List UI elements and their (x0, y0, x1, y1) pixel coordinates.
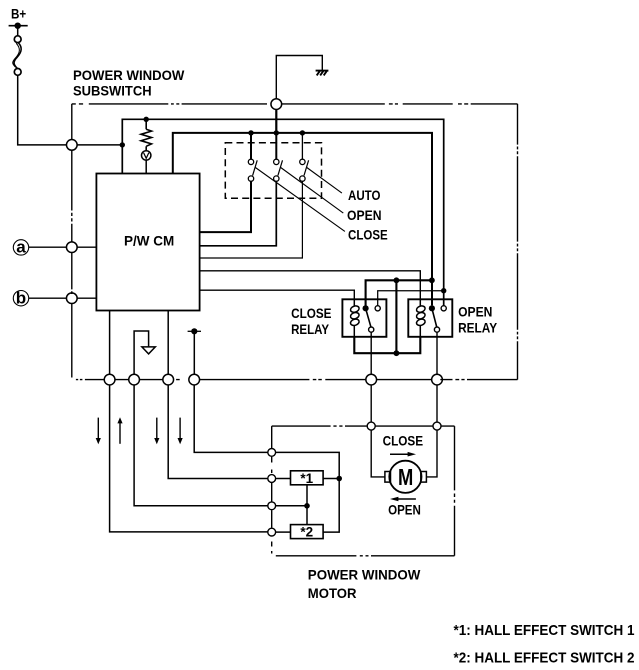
node B+ rail junction (120, 142, 125, 147)
svg-text:b: b (16, 289, 26, 308)
node hall supply (336, 476, 342, 482)
switch OPEN contacts (274, 159, 283, 181)
ground arrow (142, 347, 155, 354)
svg-text:OPEN: OPEN (347, 207, 382, 223)
terminal a (13, 238, 28, 257)
svg-text:OPEN: OPEN (388, 502, 421, 518)
close relay box (342, 299, 386, 337)
wire P/W CM to close relay coil (200, 290, 355, 299)
wire relay outputs to motor top pins (371, 385, 437, 422)
flow arrow down 1 (96, 418, 101, 445)
flow arrow down 2 (154, 418, 159, 445)
node coil return rail (394, 350, 400, 356)
svg-text:*1: HALL EFFECT SWITCH 1: *1: HALL EFFECT SWITCH 1 (454, 622, 635, 639)
svg-text:*1: *1 (300, 471, 313, 486)
svg-text:RELAY: RELAY (458, 319, 498, 335)
hall effect switch 2 box (291, 525, 324, 539)
label pointer line switch1 to CLOSE (255, 168, 345, 232)
wire open relay output (436, 332, 438, 374)
wire hall2 left (276, 531, 291, 533)
svg-text:a: a (16, 238, 26, 257)
node subswitch bottom pin4 (189, 374, 200, 385)
node B+ loop to fixed contacts (441, 288, 446, 293)
svg-text:CLOSE: CLOSE (383, 433, 424, 449)
wire ground circle up to chassis ground (276, 56, 322, 99)
wire close relay output (370, 332, 372, 374)
open direction arrow (390, 497, 416, 502)
node switch bus close (300, 130, 305, 135)
label pointer line switch2 to OPEN (281, 168, 344, 214)
node common bus right (429, 277, 435, 283)
close relay coil (350, 299, 360, 337)
wire hall1 to hall2 (306, 485, 308, 525)
switch CLOSE contacts (300, 159, 309, 181)
open relay box (408, 299, 452, 337)
wire close relay fixed contact to B+ loop (378, 291, 444, 306)
svg-text:RELAY: RELAY (291, 321, 330, 337)
power window subswitch box right border (517, 104, 519, 380)
svg-text:SUBSWITCH: SUBSWITCH (73, 82, 152, 98)
node switch bus auto (248, 130, 253, 135)
node subswitch bottom open output (432, 374, 443, 385)
node subswitch border ground junction (271, 99, 282, 110)
svg-text:OPEN: OPEN (458, 303, 492, 319)
wire P/W CM to switch2 (200, 181, 277, 246)
switch dashed box (225, 143, 321, 199)
wire B+ rail loop to open relay fixed contact (122, 119, 443, 305)
node motor left pin3 (268, 502, 276, 510)
wire subswitch pin2 to motor pin3 (134, 385, 268, 506)
wire coil return rail (354, 337, 420, 353)
node subswitch border pin a (66, 242, 77, 253)
svg-text:*2: HALL EFFECT SWITCH 2: *2: HALL EFFECT SWITCH 2 (454, 650, 635, 667)
wire switch 1 stem (250, 133, 252, 159)
flow arrow up (117, 417, 122, 444)
wire hall signal mid (276, 505, 307, 507)
hall effect switch 1 box (291, 471, 324, 485)
svg-text:B+: B+ (11, 6, 26, 21)
power window motor box top border (272, 425, 455, 427)
wire terminal b to P/W CM (29, 297, 97, 299)
wire common bus drop to coil return rail (395, 280, 397, 353)
node motor left pin2 (268, 475, 276, 483)
wire P/W CM to switch1 (200, 181, 251, 232)
wire hall1 right (323, 478, 339, 480)
svg-text:CLOSE: CLOSE (291, 305, 331, 321)
wire ground circle to switch bus (275, 110, 277, 133)
node motor left pin4 (268, 528, 276, 536)
switch AUTO contacts (248, 159, 257, 181)
power window motor box left border (271, 426, 273, 553)
open relay contact (429, 305, 447, 332)
svg-text:AUTO: AUTO (348, 187, 381, 203)
wire ground arrow branch (134, 331, 149, 374)
fuse (circuit breaker) (13, 36, 21, 76)
power window subswitch box top border (72, 103, 518, 105)
node subswitch bottom pin3 (163, 374, 174, 385)
close relay contact (363, 305, 381, 332)
terminal b (13, 289, 28, 308)
node resistor top (144, 117, 149, 122)
wire ground bus loop to open relay contact common (173, 133, 432, 306)
power window subswitch box bottom border (76, 379, 518, 381)
resistor (141, 121, 152, 151)
label pointer line switch3 to AUTO (307, 168, 342, 194)
wire P/W CM to switch3 (200, 181, 303, 258)
wire relay contact common bus (366, 280, 432, 308)
wire motor pin open side (426, 430, 437, 477)
chassis ground (316, 71, 329, 76)
svg-text:POWER WINDOW: POWER WINDOW (308, 567, 421, 583)
svg-text:*2: *2 (300, 525, 313, 540)
node subswitch bottom close output (366, 374, 377, 385)
node motor left pin1 (268, 449, 276, 457)
wire P/W CM bottom pin1 (109, 311, 111, 375)
svg-text:CLOSE: CLOSE (348, 226, 388, 242)
node common bus mid (394, 277, 400, 283)
wire P/W CM to open relay coil (200, 271, 421, 300)
node motor top close pin (367, 422, 375, 430)
flow arrow down 3 (178, 418, 183, 445)
terminal tick node (188, 328, 201, 374)
P/W CM box (96, 174, 199, 311)
wire junction to B+ rail (77, 144, 122, 146)
wire terminal a to P/W CM (29, 246, 97, 248)
B+ terminal (9, 23, 28, 36)
svg-text:MOTOR: MOTOR (308, 585, 357, 601)
wire subswitch pin1 to motor pin4 (110, 385, 268, 532)
wire P/W CM bottom pin3 (167, 311, 169, 375)
node switch bus open (274, 130, 279, 135)
power window subswitch box left border (71, 104, 73, 378)
svg-text:P/W CM: P/W CM (124, 232, 174, 248)
motor M1 (385, 461, 427, 493)
node motor top open pin (433, 422, 441, 430)
node hall signal (304, 503, 310, 509)
wire hall1 left (276, 478, 291, 480)
lamp (142, 151, 151, 174)
node subswitch bottom pin2 (129, 374, 140, 385)
svg-text:POWER WINDOW: POWER WINDOW (73, 67, 185, 83)
wire subswitch pin3 to motor pin2 (168, 385, 268, 479)
power window motor box right border (454, 426, 456, 556)
node subswitch border B+ junction (66, 140, 77, 151)
wire switch 2 stem (275, 133, 277, 159)
close direction arrow (390, 452, 416, 457)
svg-text:M: M (398, 464, 413, 490)
node subswitch border pin b (66, 293, 77, 304)
wire hall effect supply loop (276, 452, 340, 532)
open relay coil (416, 299, 426, 337)
wire motor pin close side (371, 430, 385, 477)
node subswitch bottom pin1 (104, 374, 115, 385)
wire B+ to subswitch junction (18, 75, 67, 145)
wire switch 3 stem (301, 133, 303, 159)
wire subswitch pin4 to motor pin1 (194, 385, 268, 452)
power window motor box bottom border (276, 555, 455, 557)
